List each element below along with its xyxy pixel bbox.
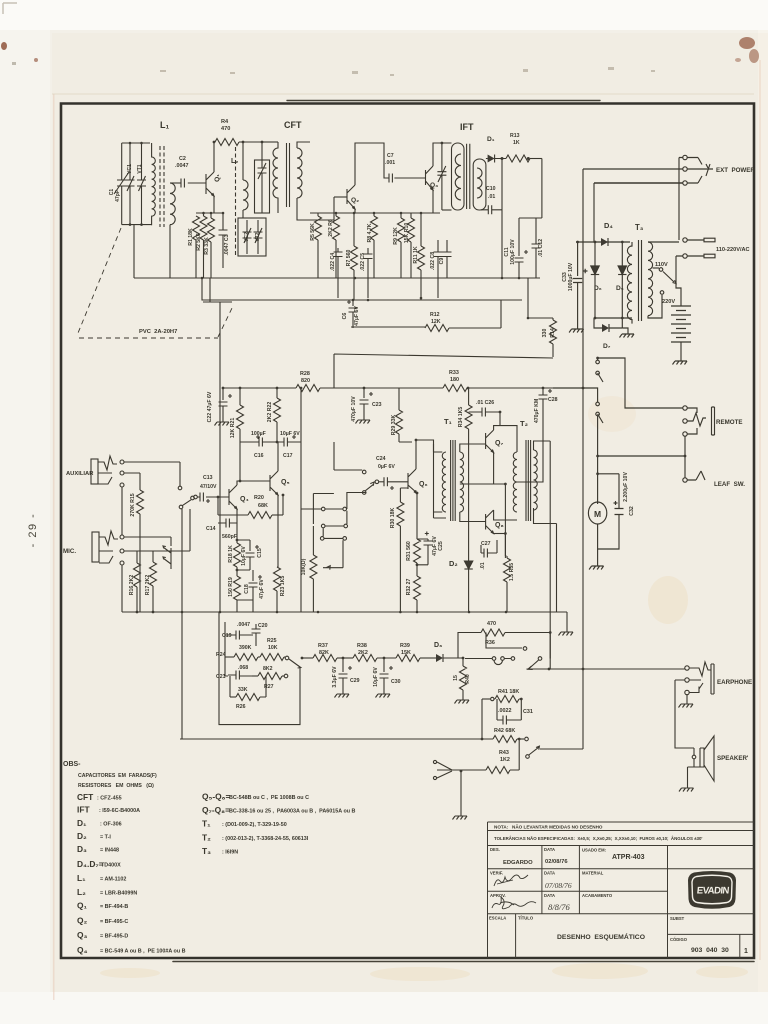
head connect arrows [163, 546, 171, 569]
core L2 dashed [235, 147, 237, 256]
wire switch top [598, 358, 683, 408]
svg-text:Q₁: Q₁ [77, 901, 88, 911]
svg-text:.01: .01 [488, 194, 495, 200]
svg-text:D₄.D₇=: D₄.D₇= [77, 859, 104, 869]
transistor Q3 [426, 166, 434, 190]
resistor R28 [296, 385, 320, 392]
dashed PVC lines [78, 228, 233, 338]
coupling caps wire [240, 441, 301, 443]
svg-text:C2: C2 [179, 156, 186, 162]
svg-text:= BF-495-C: = BF-495-C [100, 919, 128, 925]
svg-text:R31 560: R31 560 [406, 541, 412, 561]
long wire to audio [334, 354, 553, 388]
svg-text:.01 C26: .01 C26 [476, 400, 494, 406]
capacitor C15 [246, 540, 260, 570]
RF mid bus [310, 212, 440, 214]
capacitor C7 [389, 174, 392, 183]
svg-text:.022 C4: .022 C4 [330, 253, 336, 271]
switch function wires [301, 442, 374, 538]
svg-text:R33: R33 [449, 370, 459, 376]
svg-text:C31: C31 [523, 709, 533, 715]
IFT primary former [452, 143, 465, 210]
resistor R30 [400, 488, 408, 502]
svg-text:C29: C29 [350, 678, 360, 684]
svg-text:R11 1K: R11 1K [413, 246, 419, 264]
wire R31 C25 [417, 539, 428, 565]
svg-text:82K: 82K [319, 650, 329, 656]
svg-text:VC2: VC2 [244, 232, 250, 242]
svg-text:47pF: 47pF [115, 190, 121, 202]
svg-text:R20: R20 [254, 495, 264, 501]
svg-text:C21: C21 [216, 674, 226, 680]
capacitor C17 [284, 438, 287, 447]
capacitor C13 [200, 493, 203, 502]
wire Q7 collector [494, 426, 517, 452]
jack 110-220 contacts [683, 238, 687, 242]
diode D3 [436, 654, 443, 662]
svg-text:EARPHONE: EARPHONE [717, 679, 752, 686]
capacitor C21 [225, 648, 252, 680]
capacitor C5 [364, 248, 373, 298]
svg-text:T₂: T₂ [520, 419, 528, 428]
wire L2 bottom [242, 210, 244, 218]
ground C22 [215, 418, 230, 426]
ground C30 [376, 690, 391, 698]
svg-text:T₃: T₃ [202, 846, 211, 856]
capacitor C27 [481, 540, 497, 558]
svg-text:180: 180 [450, 377, 459, 383]
svg-text:100µF 10V: 100µF 10V [510, 239, 516, 265]
svg-text:.0047 C3: .0047 C3 [224, 234, 230, 255]
resistor R20 [218, 497, 248, 515]
svg-text:47/10V: 47/10V [200, 484, 217, 490]
resistor R38 [353, 655, 377, 662]
svg-text:RESISTORES EM OHMS (Ω): RESISTORES EM OHMS (Ω) [78, 783, 154, 789]
svg-text:C7: C7 [387, 153, 394, 159]
svg-text:02/08/76: 02/08/76 [545, 859, 568, 865]
svg-text:8K2: 8K2 [263, 666, 273, 672]
svg-text:15K: 15K [401, 650, 411, 656]
wire mic [122, 509, 190, 612]
wire T1 pri left boundary [434, 444, 447, 518]
svg-text:Q₄: Q₄ [240, 496, 249, 503]
wire Q6 collector [416, 440, 434, 469]
capacitor C26 [469, 408, 500, 426]
svg-text:Q₅-Q₆=: Q₅-Q₆= [202, 792, 230, 802]
svg-text:110V: 110V [655, 262, 668, 268]
svg-text:IFT: IFT [77, 805, 90, 815]
svg-text:Q₂: Q₂ [77, 916, 88, 926]
svg-text:D₆: D₆ [594, 285, 602, 292]
svg-text:12K: 12K [431, 319, 441, 325]
resistor R8 [373, 213, 375, 216]
volume pot 10K(D) [312, 526, 314, 555]
svg-text:110-220V/AC: 110-220V/AC [716, 247, 750, 253]
svg-text:C16: C16 [254, 453, 264, 459]
wire CFT bottoms [278, 197, 334, 220]
transistor Q1 [206, 172, 214, 196]
svg-text:R28: R28 [300, 371, 310, 377]
capacitor C6 [347, 300, 358, 328]
handwritten signatures and dates [492, 875, 536, 909]
svg-text:.01: .01 [480, 562, 486, 569]
resistor R15 [139, 473, 141, 490]
wire Q3 collector [433, 143, 452, 166]
svg-text:SUBST: SUBST [670, 916, 685, 921]
svg-text:68K: 68K [258, 503, 268, 509]
wire IFT bottom [442, 209, 452, 211]
svg-text:L₂: L₂ [231, 158, 238, 165]
svg-text:C14: C14 [206, 526, 216, 532]
svg-text:C30: C30 [391, 679, 401, 685]
jack EARPHONE spring [689, 662, 711, 693]
svg-text:L₁: L₁ [160, 120, 169, 130]
svg-text:- 29 -: - 29 - [27, 513, 39, 548]
svg-text:C28: C28 [548, 397, 558, 403]
title block outline [488, 822, 755, 958]
svg-text:: OF-306: : OF-306 [100, 822, 122, 828]
svg-text:R38: R38 [357, 643, 367, 649]
coil IFT primary [455, 154, 461, 200]
capacitor C19 [228, 631, 250, 640]
RF rail 1 [134, 277, 540, 279]
wire R20 right [282, 495, 284, 515]
resistor R19 [236, 570, 238, 576]
resistor R31 [414, 539, 421, 563]
svg-text:T₁: T₁ [444, 417, 452, 426]
junction dots power [576, 241, 686, 476]
svg-text:R7 560: R7 560 [346, 250, 352, 267]
resistor R6 [335, 213, 337, 216]
resistor R41 [482, 698, 490, 700]
wire input box top [122, 142, 150, 144]
transistor Q5 [270, 471, 278, 495]
svg-text:D₇: D₇ [603, 343, 611, 350]
svg-text:15: 15 [453, 675, 459, 681]
transistor Q2 [347, 185, 355, 209]
svg-text:3.3µF 6V: 3.3µF 6V [332, 666, 338, 688]
trimmer box VC2 VT2 [238, 218, 266, 256]
svg-text:C15: C15 [257, 548, 263, 558]
svg-text:R5 56K: R5 56K [310, 223, 316, 241]
wire ext power mid [583, 168, 683, 170]
svg-text:R2 5K6: R2 5K6 [196, 233, 202, 251]
svg-text:Q₅: Q₅ [281, 479, 290, 486]
svg-text:T₃: T₃ [635, 223, 644, 232]
wire to C13 [194, 495, 198, 499]
diode D5 [621, 242, 623, 318]
coil L2 [243, 180, 248, 210]
svg-text:2K2 R6: 2K2 R6 [328, 219, 334, 237]
jack EXT POWER spring [687, 158, 713, 184]
svg-text:R27: R27 [264, 684, 274, 690]
svg-text:= T-I: = T-I [100, 835, 111, 841]
RF rail 2 [202, 278, 522, 300]
svg-text:.0022: .0022 [498, 708, 512, 714]
IFT secondary former [473, 159, 486, 210]
wire switch bus [181, 509, 183, 739]
wire Q1 emitter [213, 196, 215, 213]
svg-text:R24: R24 [216, 652, 226, 658]
svg-text:= BC-549 A ou B , PE 100#A ou: = BC-549 A ou B , PE 100#A ou B [100, 949, 186, 955]
svg-text:EXT POWER: EXT POWER [716, 167, 755, 174]
svg-text:R8 4.7K: R8 4.7K [367, 223, 373, 242]
resistor R39 [396, 655, 420, 662]
bus wire down [219, 302, 221, 612]
svg-text:1: 1 [744, 948, 748, 955]
capacitor C14 [218, 519, 237, 528]
svg-text:= BF-494-B: = BF-494-B [100, 904, 128, 910]
svg-text:DATA: DATA [544, 847, 555, 852]
svg-text:R18 1K: R18 1K [228, 545, 234, 563]
transformer T3 primary [627, 242, 632, 324]
wire box bottom bus [180, 738, 493, 740]
svg-text:OBS-: OBS- [63, 761, 81, 768]
ground battery [673, 357, 688, 365]
resistor R24 [225, 656, 234, 658]
svg-text:47µF 6V: 47µF 6V [354, 306, 360, 326]
switch arm [538, 657, 542, 661]
svg-text:2K2 R22: 2K2 R22 [267, 402, 273, 423]
svg-text:BC-338-16 ou 25 , PA6003A ou: BC-338-16 ou 25 , PA6003A ou B , PA6015A… [229, 809, 356, 815]
svg-text:470µF 10V: 470µF 10V [351, 396, 357, 422]
jack MIC [92, 532, 99, 562]
svg-text:R14: R14 [550, 328, 556, 338]
svg-text:C10: C10 [486, 186, 496, 192]
svg-text:VC1: VC1 [127, 164, 133, 174]
capacitor C30 [380, 658, 394, 690]
plug pins [687, 240, 704, 256]
transformer T2 primary [513, 452, 517, 512]
svg-text:D₃: D₃ [77, 844, 87, 854]
resistor R29 [396, 388, 413, 442]
svg-text:NOTA: NÃO LEVANTAR MEDIDAS N: NOTA: NÃO LEVANTAR MEDIDAS NO DESENHO [494, 824, 603, 830]
coil L1 primary [152, 143, 156, 225]
wire Q5 collector [277, 442, 279, 471]
resistor R14 [552, 318, 554, 320]
svg-text:470µF KM: 470µF KM [534, 399, 540, 423]
svg-text:C9: C9 [439, 258, 445, 265]
transistor Q4 [229, 485, 237, 509]
ground C23 [356, 416, 371, 424]
svg-text:470: 470 [487, 621, 496, 627]
transformer T2 core [526, 440, 531, 521]
core CFT [287, 143, 290, 207]
switch power contacts [596, 360, 600, 364]
wire drop 2 [593, 183, 595, 242]
wire Q1 collector [214, 142, 215, 172]
svg-text:8/8/76: 8/8/76 [548, 902, 570, 912]
svg-text:470: 470 [221, 126, 230, 132]
transformer T1 primary [442, 452, 446, 512]
coil L1 secondary [170, 183, 175, 225]
svg-text:R37: R37 [318, 643, 328, 649]
svg-text:.001: .001 [385, 160, 395, 166]
wire Q8 emitter [494, 533, 506, 535]
svg-text:: I59-6C-B4000A: : I59-6C-B4000A [99, 808, 140, 814]
svg-text:EDGARDO: EDGARDO [503, 860, 533, 866]
wire Q8 collector [494, 510, 517, 520]
svg-text:APROV.: APROV. [490, 893, 506, 898]
capacitor C12 [532, 218, 541, 278]
wire C11 C12 top [519, 217, 536, 219]
resistor R5 [317, 213, 319, 216]
svg-text:C6: C6 [342, 313, 348, 320]
wire Q4-Q5 [240, 480, 270, 482]
svg-text:47µF 6V: 47µF 6V [259, 579, 265, 599]
resistor R26 [230, 696, 236, 698]
trimmer cap CFT [258, 142, 267, 213]
svg-text:330: 330 [542, 329, 548, 338]
junction dots tone [301, 631, 585, 772]
wire aux [122, 462, 180, 535]
ground motor [597, 549, 599, 562]
svg-text:Q₄: Q₄ [77, 945, 88, 955]
svg-text:SPEAKER': SPEAKER' [717, 755, 749, 762]
wire Q3 emitter [432, 190, 434, 213]
tone labels [216, 621, 752, 763]
svg-text:0µF 6V: 0µF 6V [378, 464, 395, 470]
wire T2 sec bottom [534, 508, 557, 612]
svg-text:100µF: 100µF [251, 431, 266, 437]
svg-text:.0047: .0047 [237, 622, 250, 628]
capacitor C22 [219, 388, 233, 418]
svg-text:R42 68K: R42 68K [494, 728, 515, 734]
resistor R35 [505, 555, 508, 557]
EVADIN logo [688, 871, 736, 909]
audio top rail [223, 387, 553, 389]
sheet frame [61, 104, 754, 959]
transformer T3 secondary [648, 242, 653, 316]
wire jack2 to switch arm [676, 256, 683, 306]
resistor R3 [210, 213, 212, 218]
svg-text:Q₈: Q₈ [495, 522, 504, 529]
svg-text:390K: 390K [239, 645, 252, 651]
wire CFT primary top [262, 141, 278, 143]
svg-text:15K R10: 15K R10 [404, 223, 410, 244]
capacitor C25 [424, 532, 433, 565]
svg-text:.022 C5: .022 C5 [360, 253, 366, 271]
svg-text:R23 1K5: R23 1K5 [280, 576, 286, 597]
resistor R42 [493, 736, 517, 743]
jack EXT POWER contacts [683, 155, 687, 159]
svg-text:Q₇-Q₈=: Q₇-Q₈= [202, 805, 230, 815]
IFT trimmer cap [437, 143, 446, 210]
svg-text:: I6I9N: : I6I9N [222, 850, 238, 856]
wire T3 sec top [648, 241, 679, 243]
resistor R16 [136, 551, 138, 563]
switch bottom [526, 755, 530, 759]
wire drop to rail [133, 225, 135, 278]
battery B1 [671, 306, 691, 357]
resistor R4 [215, 139, 239, 146]
resistor R36 470 [458, 633, 481, 659]
svg-text:= IN448: = IN448 [100, 848, 119, 854]
wire input box bottom [122, 224, 152, 226]
resistor R37 [313, 655, 337, 662]
transformer T1 secondary [460, 452, 464, 512]
svg-text:CÓDIGO: CÓDIGO [670, 937, 688, 942]
svg-text:CFT: CFT [284, 120, 302, 130]
wire T2 sec boundary [534, 441, 551, 669]
CFT trimmer box [255, 160, 270, 213]
wire bridge top [576, 241, 630, 243]
wire R14 top [528, 278, 553, 318]
trimmer VC1 [126, 143, 135, 225]
capacitor C24 [384, 477, 387, 486]
wire Q2 emitter [354, 209, 356, 213]
svg-text:BC-548B ou C , PE 1008B ou C: BC-548B ou C , PE 1008B ou C [229, 795, 309, 801]
svg-text:: (002-013-2), T-3368-24-55, 6: : (002-013-2), T-3368-24-55, 60613I [222, 836, 309, 842]
resistor R18 [236, 540, 238, 543]
resistor R43 [452, 769, 486, 771]
ground bottom jack [453, 812, 468, 820]
svg-text:R36: R36 [485, 640, 495, 646]
wire T2 center tap [517, 403, 543, 482]
wire audio rail to switch [553, 388, 598, 402]
svg-text:07/08/76: 07/08/76 [545, 881, 572, 890]
resistor R40 [462, 658, 464, 666]
svg-text:= LBR-B4099N: = LBR-B4099N [100, 891, 137, 897]
svg-text:C25: C25 [438, 541, 444, 551]
wire Q4 collector [237, 481, 240, 485]
resistor R10 [410, 213, 412, 218]
svg-text:10K(D): 10K(D) [301, 558, 307, 575]
svg-text:Q₇: Q₇ [495, 440, 503, 447]
svg-text:C20: C20 [258, 623, 268, 629]
coil IFT secondary [477, 168, 482, 198]
svg-text:C17: C17 [283, 453, 293, 459]
speaker SPK [692, 755, 696, 759]
svg-text:C18: C18 [244, 584, 250, 594]
diode D4 [601, 238, 608, 246]
svg-text:L₂: L₂ [77, 887, 86, 897]
pot tone arrow [285, 656, 289, 660]
svg-text:R3 33K: R3 33K [204, 237, 210, 255]
jack LEAF SW [683, 478, 687, 482]
svg-text:Q₃: Q₃ [430, 182, 438, 189]
svg-text:R26: R26 [236, 704, 246, 710]
jack REMOTE contacts [683, 406, 687, 410]
svg-text:C22 47µF 6V: C22 47µF 6V [207, 391, 213, 422]
svg-text:10µF 6V: 10µF 6V [373, 667, 379, 687]
svg-text:903 040 30: 903 040 30 [691, 947, 729, 954]
svg-text:REMOTE: REMOTE [716, 419, 742, 426]
svg-text:D₃: D₃ [434, 642, 442, 649]
diode D7 [594, 318, 602, 328]
capacitor C18 [249, 570, 263, 600]
wire R18 C15 [237, 540, 250, 570]
resistor R33 [443, 385, 467, 392]
trimmer VT1 [137, 143, 146, 225]
jack REMOTE spring [687, 408, 706, 434]
wire RF drop left [203, 278, 232, 302]
capacitor C23 [360, 388, 374, 416]
core IFT [467, 144, 470, 209]
svg-text:1000µF 10V: 1000µF 10V [568, 262, 574, 291]
resistor R27 [252, 675, 258, 677]
svg-text:DES.: DES. [490, 847, 500, 852]
svg-text:C27: C27 [481, 541, 491, 547]
resistor R34 [468, 388, 470, 405]
OBS NOTES [63, 761, 356, 955]
ground C33 [569, 325, 584, 333]
resistor R9 [400, 213, 402, 218]
wire L1 sec bottom [169, 225, 171, 278]
svg-text:270K R15: 270K R15 [130, 493, 136, 516]
capacitor C11 [515, 218, 529, 278]
RF rail 3 with resistor R12 [351, 326, 425, 328]
